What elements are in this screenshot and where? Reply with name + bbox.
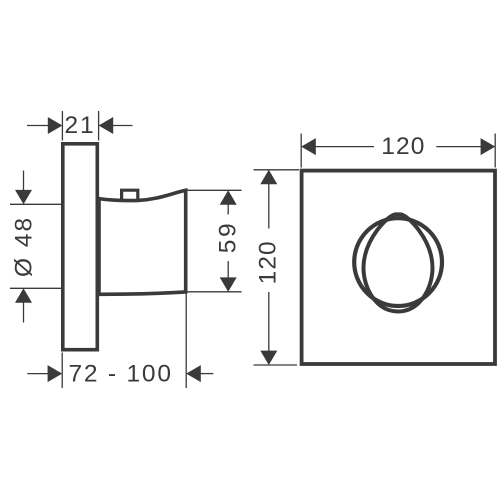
- dim 59 extension line top: [188, 189, 242, 191]
- dim 72-100 arrow left: [48, 365, 63, 382]
- escutcheon square (front view): [302, 171, 495, 364]
- dim Ø48 tail line bottom: [23, 302, 25, 322]
- dim 59 line lower: [227, 261, 229, 278]
- button on knob: [122, 190, 138, 200]
- svg-text:120: 120: [255, 240, 282, 284]
- svg-text:21: 21: [64, 112, 95, 139]
- dim 21 extension line right: [98, 111, 100, 141]
- svg-text:72 - 100: 72 - 100: [68, 360, 172, 387]
- handle knob (side view): [99, 190, 186, 294]
- handle circle (front view): [354, 218, 442, 306]
- dim Ø48 tail line top: [23, 171, 25, 191]
- dim 120 top arrow right: [481, 138, 496, 155]
- dim 21 tail line left: [27, 125, 48, 127]
- dim 59 line upper: [227, 204, 229, 215]
- dim 21 extension line left: [61, 111, 63, 141]
- dim 72-100 tail line left: [27, 373, 48, 375]
- dim 120 top extension line left: [300, 134, 302, 168]
- dim 120 top extension line right: [494, 134, 496, 168]
- svg-text:120: 120: [381, 133, 425, 160]
- dim Ø48 extension line top: [10, 203, 61, 205]
- dim 120 left arrow down: [260, 351, 277, 365]
- dim Ø48 arrow bottom: [15, 288, 32, 302]
- dim 21 tail line right: [113, 125, 133, 127]
- dim 72-100 tail line right: [201, 373, 214, 375]
- dim 120 top line right segment: [436, 146, 481, 148]
- dim 21 arrow left: [48, 117, 63, 134]
- handle egg profile (front view): [364, 214, 433, 311]
- dim 72-100 extension line left: [61, 353, 63, 389]
- svg-text:Ø 48: Ø 48: [11, 216, 38, 277]
- dim 120 left line upper segment: [268, 184, 270, 229]
- dim 59 extension line bottom: [188, 291, 242, 293]
- dim 120 left arrow up: [260, 170, 277, 184]
- dim Ø48 arrow top: [15, 190, 32, 204]
- dim 120 left line lower segment: [268, 292, 270, 351]
- dim 59 arrow up: [220, 190, 237, 204]
- svg-text:59: 59: [214, 221, 241, 253]
- dim 72-100 arrow right: [186, 365, 201, 382]
- dim 72-100 extension line right: [185, 294, 187, 389]
- escutcheon plate (side view): [63, 144, 98, 350]
- dim 21 arrow right: [99, 117, 114, 134]
- dim Ø48 extension line bottom: [10, 287, 61, 289]
- dim 59 arrow down: [220, 277, 237, 291]
- dim 120 top arrow left: [301, 138, 316, 155]
- dim 120 top line left segment: [315, 146, 374, 148]
- dim 120 left extension line bottom: [254, 364, 298, 366]
- dim 120 left extension line top: [254, 169, 300, 171]
